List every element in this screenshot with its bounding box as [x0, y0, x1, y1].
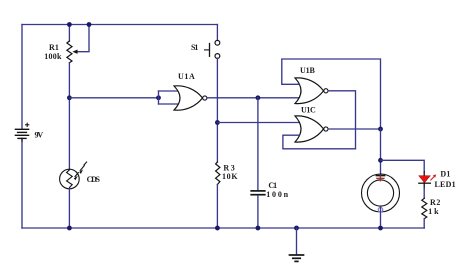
wire C1 bottom [257, 196, 259, 228]
wire R1 top stub [68, 25, 70, 42]
svg-text:U1A: U1A [178, 72, 195, 81]
node U1A input split [156, 95, 161, 100]
wire R3 to bottom rail [216, 185, 218, 229]
svg-text:D1: D1 [440, 170, 450, 179]
wire to ground [296, 228, 298, 255]
U1B output bubble [324, 89, 328, 93]
buzzer LS1 [362, 174, 400, 212]
battery BT 9V [15, 123, 28, 141]
svg-text:C1: C1 [268, 181, 277, 190]
svg-text:LED1: LED1 [435, 180, 456, 189]
node C1 tap [256, 95, 261, 100]
svg-text:U1C: U1C [301, 106, 316, 115]
resistor R3 [216, 162, 220, 185]
node R3-rail [215, 226, 220, 231]
buzzer bottom terminal marker [378, 208, 383, 213]
wire U1B output to U1C bottom input [283, 91, 356, 149]
wire U1C output [328, 128, 380, 130]
wire R2 to rail [423, 219, 425, 228]
wire left vertical to battery [21, 25, 23, 129]
wire top rail [22, 24, 217, 26]
U1C output bubble [324, 127, 328, 131]
resistor R2 [422, 198, 427, 218]
node C1-rail [256, 226, 261, 231]
node R1/CDS/U1A junction [67, 95, 72, 100]
wire U1B top input feedback [282, 59, 381, 129]
wire U1C top input [217, 122, 299, 124]
wire LED branch [381, 160, 425, 172]
wire bottom rail [22, 227, 424, 229]
LED light arrow [431, 176, 435, 180]
node CDS-rail [67, 226, 72, 231]
svg-text:CDS: CDS [87, 175, 101, 184]
ground [290, 255, 304, 261]
op-amp U1C (NOR gate) [295, 116, 324, 142]
op-amp U1B (NOR gate) [295, 78, 324, 104]
wire buzzer to rail [380, 207, 382, 228]
wire U1A input bar and stubs [158, 91, 160, 104]
switch S1 [216, 25, 218, 41]
wire C1 top [257, 98, 259, 190]
node rail-R1 [67, 22, 72, 27]
wire S1 to R3 [216, 58, 218, 162]
svg-text:100n: 100n [266, 190, 288, 199]
wire feedback node to buzzer [380, 129, 382, 175]
wire U1A output to U1B input [207, 97, 299, 99]
photoresistor CDS [60, 162, 87, 189]
capacitor C1 [251, 191, 265, 195]
node S1/R3 to U1C tap [215, 120, 220, 125]
resistor R1 (potentiometer body) [67, 41, 72, 63]
CDS arrowheads [79, 169, 83, 174]
node ground tap [294, 226, 299, 231]
svg-text:U1B: U1B [300, 66, 315, 75]
wire R1 to CDS [68, 63, 70, 169]
buzzer plus terminal [377, 176, 384, 181]
node buzzer-rail [378, 226, 383, 231]
svg-text:100k: 100k [44, 52, 62, 61]
svg-text:1k: 1k [428, 207, 439, 216]
op-amp U1A (NOR gate) [174, 86, 203, 110]
wire LED to R2 [423, 188, 425, 198]
wire battery to bottom rail [21, 142, 23, 229]
svg-text:R1: R1 [49, 43, 59, 52]
wire U1A input horizontal [69, 97, 158, 99]
svg-text:9V: 9V [35, 130, 44, 139]
R1 wiper arrowhead [72, 50, 77, 54]
U1A output bubble [203, 96, 207, 100]
node U1C out feedback [378, 127, 383, 132]
wire CDS to bottom rail [68, 189, 70, 228]
wire R1 wiper [77, 25, 90, 52]
svg-text:10K: 10K [222, 172, 238, 181]
node rail-wiper [87, 22, 92, 27]
svg-text:S1: S1 [191, 43, 198, 52]
LED D1 [423, 172, 425, 189]
node LED branch tap [378, 158, 383, 163]
